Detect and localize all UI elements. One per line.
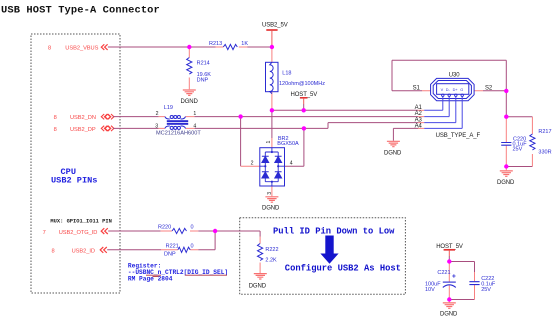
diode bridge BR2 BGX50A — [251, 136, 299, 195]
wire VBUS row — [108, 46, 272, 48]
pin stubs L19 top — [159, 116, 425, 118]
svg-text:1K: 1K — [241, 41, 248, 47]
power HOST_5V (bottom) — [436, 244, 463, 261]
svg-text:8: 8 — [48, 45, 51, 51]
svg-text:DNP: DNP — [197, 78, 209, 84]
blue arrow — [320, 236, 338, 264]
junction S2/shield loop — [504, 89, 508, 93]
svg-text:MUX: GPIO1_IO11 PIN: MUX: GPIO1_IO11 PIN — [50, 218, 111, 224]
port USB2_DP — [54, 126, 114, 133]
svg-text:25V: 25V — [481, 287, 491, 293]
inductor L18 — [266, 47, 326, 110]
svg-text:USB2_DN: USB2_DN — [70, 115, 96, 121]
power HOST_5V (mid) — [291, 92, 318, 110]
svg-text:L19: L19 — [164, 105, 173, 111]
svg-text:A3: A3 — [415, 117, 423, 123]
junction R220/R221 — [213, 229, 217, 233]
U30 pin leads (blue) — [424, 97, 462, 129]
svg-text:0: 0 — [191, 243, 194, 249]
resistor R221 — [164, 243, 194, 257]
resistor R222 — [258, 237, 279, 274]
junction R213/USB2_5V/L18 — [270, 45, 274, 49]
svg-text:A1: A1 — [415, 105, 423, 111]
svg-text:V: V — [441, 88, 444, 92]
svg-text:R220: R220 — [158, 225, 171, 231]
svg-text:2.2K: 2.2K — [265, 258, 277, 264]
svg-text:DGND: DGND — [262, 206, 280, 212]
svg-text:0: 0 — [191, 225, 194, 231]
svg-text:1: 1 — [193, 111, 196, 117]
junction C221/C222 ground node — [447, 297, 451, 301]
junction DN/BR2 pin2 — [238, 114, 242, 118]
svg-text:DGND: DGND — [249, 284, 267, 290]
port USB2_ID — [52, 247, 107, 255]
svg-text:S1: S1 — [413, 86, 421, 92]
junction C220/R217 bottom — [504, 164, 508, 168]
svg-text:DGND: DGND — [440, 312, 458, 318]
wire C221/C222 branch — [449, 262, 474, 300]
svg-text:1: 1 — [266, 141, 272, 144]
junction HOST_5V/A1 line — [302, 108, 306, 112]
svg-text:R217: R217 — [538, 129, 551, 135]
svg-text:G: G — [460, 88, 463, 92]
ground DGND (A4) — [384, 141, 402, 156]
svg-text:USB HOST Type-A Connector: USB HOST Type-A Connector — [1, 5, 160, 17]
svg-text:USB2 PINs: USB2 PINs — [51, 176, 97, 186]
svg-text:2: 2 — [251, 160, 254, 166]
resistor R217 — [530, 117, 552, 167]
svg-text:330R: 330R — [538, 150, 551, 156]
svg-text:A2: A2 — [415, 111, 423, 117]
svg-text:D-: D- — [446, 88, 451, 92]
svg-text:S2: S2 — [485, 86, 493, 92]
pin stubs L19 bottom / A3 — [159, 123, 425, 129]
ground DGND (R214) — [181, 90, 199, 105]
wire A4 row — [393, 128, 418, 140]
svg-text:120ohm@100MHz: 120ohm@100MHz — [279, 81, 325, 87]
text Register note — [128, 263, 228, 283]
svg-text:7: 7 — [43, 230, 46, 236]
svg-text:Configure USB2 As Host: Configure USB2 As Host — [285, 263, 401, 273]
junction HOST_5V/C221/C222 — [447, 259, 451, 263]
capacitor C222 pins — [474, 272, 476, 300]
power USB2_5V — [262, 22, 288, 47]
svg-text:8: 8 — [54, 127, 57, 133]
pin stub A1 — [418, 109, 424, 111]
CPU pins dashed box — [31, 34, 120, 293]
port USB2_DN — [54, 114, 114, 121]
svg-text:R222: R222 — [265, 247, 278, 253]
svg-text:USB2_5V: USB2_5V — [262, 22, 288, 28]
capacitor C221 (polarized) — [425, 270, 456, 293]
pin stubs R221 — [161, 249, 198, 251]
svg-text:2: 2 — [156, 111, 159, 117]
junction C220/R217 top — [504, 115, 508, 119]
wire S1/S2 shield loop — [392, 60, 506, 116]
resistor R220 — [158, 225, 194, 234]
pin stub A4 — [418, 127, 424, 129]
svg-text:R221: R221 — [166, 243, 179, 249]
svg-text:25V: 25V — [513, 147, 523, 153]
svg-text:USB2_VBUS: USB2_VBUS — [65, 45, 98, 51]
wire ID row — [107, 231, 215, 250]
svg-text:DNP: DNP — [164, 252, 176, 258]
ground DGND (R222) — [249, 274, 267, 290]
wire S2 drop / C220 R217 — [506, 117, 532, 167]
svg-text:4: 4 — [193, 124, 196, 130]
BR2 pin stubs — [241, 138, 272, 196]
USB connector U30 — [431, 73, 475, 101]
svg-text:D+: D+ — [453, 88, 459, 92]
port USB2_VBUS — [48, 44, 108, 51]
capacitor C221 pins — [448, 262, 450, 303]
pin stubs R213 — [216, 46, 248, 48]
pin stubs R220 — [161, 230, 199, 232]
ground DGND (BR2) — [262, 197, 280, 212]
wire BR2 pin1 drop — [271, 110, 273, 138]
svg-text:8: 8 — [52, 249, 55, 255]
svg-text:L18: L18 — [282, 70, 291, 76]
wire OTG_ID row — [108, 231, 260, 237]
junction DP/BR2 pin4 — [302, 126, 306, 130]
svg-text:DGND: DGND — [384, 150, 402, 156]
wire DN row — [113, 116, 418, 118]
junction R214/VBUS — [187, 45, 191, 49]
svg-text:USB2_ID: USB2_ID — [72, 249, 95, 255]
resistor R214 — [187, 48, 212, 90]
svg-text:USB2_DP: USB2_DP — [70, 127, 96, 133]
capacitor C220 — [501, 136, 527, 152]
svg-text:10V: 10V — [425, 287, 435, 293]
svg-text:RM Page 2804: RM Page 2804 — [128, 276, 173, 283]
svg-text:DGND: DGND — [181, 99, 199, 105]
svg-text:R213: R213 — [209, 41, 222, 47]
wire DP row — [113, 123, 418, 129]
svg-text:4: 4 — [290, 160, 293, 166]
pin stubs S1 S2 — [422, 90, 483, 92]
wire DP to BR2 pin4 riser — [285, 128, 304, 166]
ground DGND (C220) — [497, 171, 515, 186]
capacitor C222 — [469, 276, 496, 293]
svg-text:USB2_OTG_ID: USB2_OTG_ID — [59, 230, 98, 236]
svg-text:3: 3 — [267, 192, 273, 195]
svg-text:Pull ID Pin Down to Low: Pull ID Pin Down to Low — [273, 227, 395, 237]
svg-text:C221: C221 — [437, 270, 450, 276]
ground DGND (C221) — [440, 303, 458, 318]
wire A1/power line — [272, 109, 418, 111]
resistor R213 — [223, 44, 237, 49]
svg-text:U30: U30 — [449, 73, 460, 79]
note dashed box — [240, 218, 406, 295]
port USB2_OTG_ID — [43, 228, 108, 236]
svg-text:8: 8 — [54, 115, 57, 121]
inductor L19 common mode choke — [155, 105, 201, 136]
wire DN to BR2 pin2 — [240, 117, 242, 167]
svg-text:DGND: DGND — [497, 180, 515, 186]
capacitor C220 pins — [505, 117, 507, 170]
svg-text:R214: R214 — [197, 61, 210, 67]
svg-text:MC21216AH600T: MC21216AH600T — [156, 130, 201, 136]
svg-text:USB_TYPE_A_F: USB_TYPE_A_F — [436, 133, 481, 139]
junction L18/A1 line/BR2 pin1 — [270, 108, 274, 112]
svg-text:BGX50A: BGX50A — [277, 141, 299, 147]
svg-text:3: 3 — [155, 124, 158, 130]
svg-text:A4: A4 — [415, 124, 423, 130]
